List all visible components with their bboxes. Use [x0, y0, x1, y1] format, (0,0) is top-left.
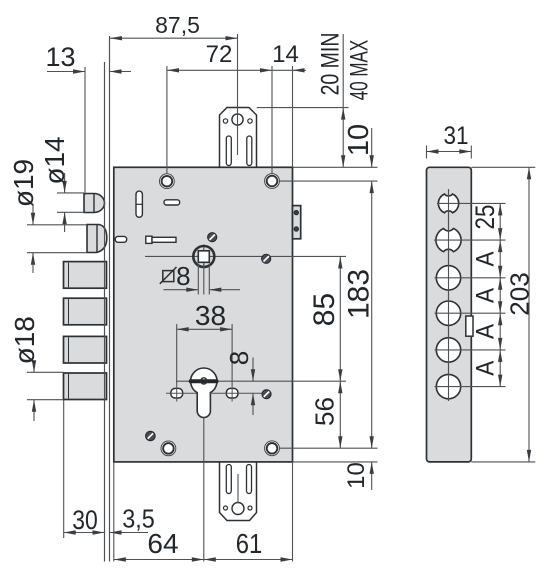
svg-text:A: A	[471, 251, 499, 266]
svg-text:10: 10	[343, 124, 375, 156]
svg-text:203: 203	[504, 272, 534, 315]
svg-text:14: 14	[272, 41, 299, 68]
svg-text:61: 61	[236, 527, 262, 559]
svg-text:10: 10	[343, 462, 370, 489]
svg-text:40 MAX: 40 MAX	[345, 40, 373, 100]
svg-text:87,5: 87,5	[155, 12, 200, 38]
svg-text:ø14: ø14	[39, 136, 70, 184]
svg-text:8: 8	[176, 261, 190, 291]
svg-text:31: 31	[443, 122, 468, 150]
svg-text:A: A	[471, 361, 499, 376]
svg-text:30: 30	[72, 506, 98, 536]
svg-text:56: 56	[309, 397, 339, 426]
svg-text:25: 25	[471, 205, 500, 230]
svg-text:72: 72	[206, 41, 233, 68]
svg-text:64: 64	[147, 528, 178, 559]
svg-text:13: 13	[45, 42, 75, 72]
svg-text:85: 85	[308, 293, 341, 326]
svg-text:20 MIN: 20 MIN	[316, 33, 344, 96]
svg-text:38: 38	[195, 300, 226, 331]
svg-text:A: A	[471, 288, 499, 303]
svg-text:ø18: ø18	[9, 316, 40, 364]
svg-text:A: A	[471, 324, 499, 339]
svg-text:183: 183	[342, 269, 375, 319]
svg-text:8: 8	[224, 351, 254, 365]
svg-text:ø19: ø19	[8, 159, 39, 207]
